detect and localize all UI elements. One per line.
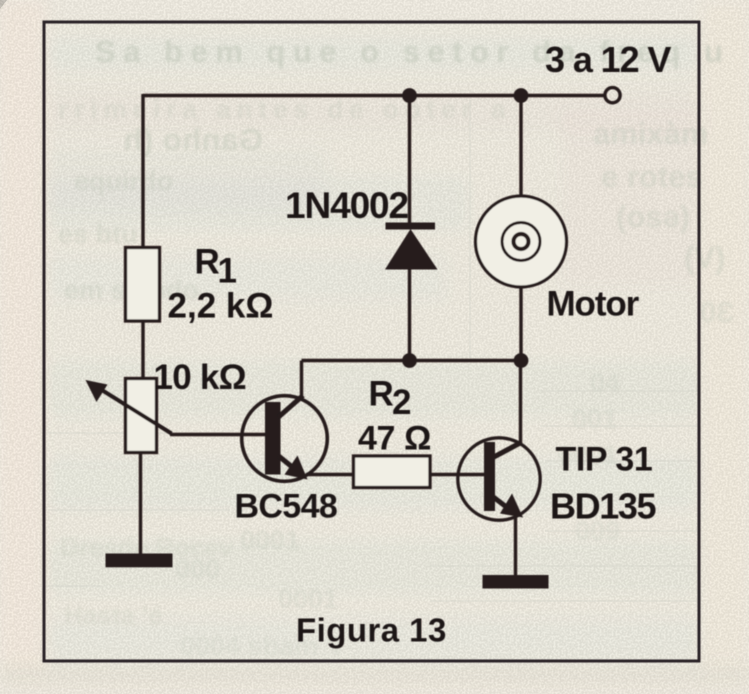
wire wiper to Q1 base — [170, 433, 266, 436]
wire collector rail — [302, 359, 522, 362]
svg-text:BD135: BD135 — [550, 486, 656, 527]
potentiometer 10 kOhm body — [126, 379, 157, 453]
motor M1 — [476, 196, 567, 287]
svg-text:R: R — [195, 243, 220, 282]
ground (right) — [483, 575, 549, 589]
svg-text:Figura 13: Figura 13 — [296, 612, 447, 649]
wire potentiometer to ground — [139, 453, 142, 555]
svg-text:Motor: Motor — [547, 285, 640, 324]
svg-text:(osə): (osə) — [616, 199, 690, 234]
svg-text:1: 1 — [218, 252, 237, 291]
svg-text:10 kΩ: 10 kΩ — [154, 358, 246, 397]
svg-text:TIP 31: TIP 31 — [556, 441, 653, 479]
transistor Q1 BC548 — [242, 396, 328, 482]
wire V+ top rail — [143, 94, 604, 97]
svg-text:2,2 kΩ: 2,2 kΩ — [168, 287, 274, 326]
svg-text:(V): (V) — [684, 240, 725, 275]
corner scan mark — [0, 0, 7, 9]
svg-text:R: R — [369, 375, 394, 414]
wire diode anode to node — [408, 269, 411, 361]
wire Q2 collector to node — [519, 361, 522, 445]
potentiometer wiper arrow — [97, 387, 172, 434]
diode D1 1N4002 — [385, 223, 438, 270]
svg-text:0001: 0001 — [278, 584, 338, 614]
wire R2 to Q2 base — [430, 473, 485, 476]
svg-text:3 a 12 V: 3 a 12 V — [545, 39, 671, 80]
svg-text:04: 04 — [590, 368, 620, 398]
node junction diode bottom — [402, 353, 417, 368]
wire Q2 emitter to ground — [514, 514, 517, 576]
wire motor top — [519, 96, 522, 196]
wire left rail — [141, 94, 144, 250]
svg-text:rrimeira antes de obter a: rrimeira antes de obter a — [58, 94, 511, 124]
node junction motor top — [514, 88, 529, 103]
svg-text:e rotes: e rotes — [601, 159, 703, 194]
resistor R2 — [354, 456, 431, 488]
transistor Q2 TIP31 / BD135 — [458, 438, 540, 520]
svg-text:0Ɛ: 0Ɛ — [700, 297, 734, 329]
svg-text:Hasta 'é: Hasta 'é — [64, 600, 163, 630]
wire Q1 collector up — [300, 361, 303, 398]
svg-text:es btu: es btu — [58, 219, 138, 249]
svg-text:47 Ω: 47 Ω — [358, 420, 431, 458]
wire R1 to potentiometer — [141, 321, 144, 379]
svg-text:equirdo: equirdo — [74, 166, 173, 196]
svg-text:2: 2 — [392, 383, 411, 422]
wire motor bottom — [519, 289, 522, 361]
supply terminal — [605, 88, 620, 103]
node junction motor bottom — [514, 353, 529, 368]
ground (left) — [106, 554, 173, 568]
wire diode cathode to V+ — [408, 96, 411, 225]
svg-text:amixàm: amixàm — [593, 116, 708, 151]
wire Q1 emitter to R2 — [306, 473, 354, 476]
svg-text:0001: 0001 — [240, 525, 300, 555]
resistor R1 — [126, 248, 160, 322]
svg-text:1N4002: 1N4002 — [285, 185, 409, 226]
svg-text:001: 001 — [572, 404, 617, 434]
svg-text:BC548: BC548 — [235, 488, 338, 526]
node junction diode top — [402, 88, 417, 103]
